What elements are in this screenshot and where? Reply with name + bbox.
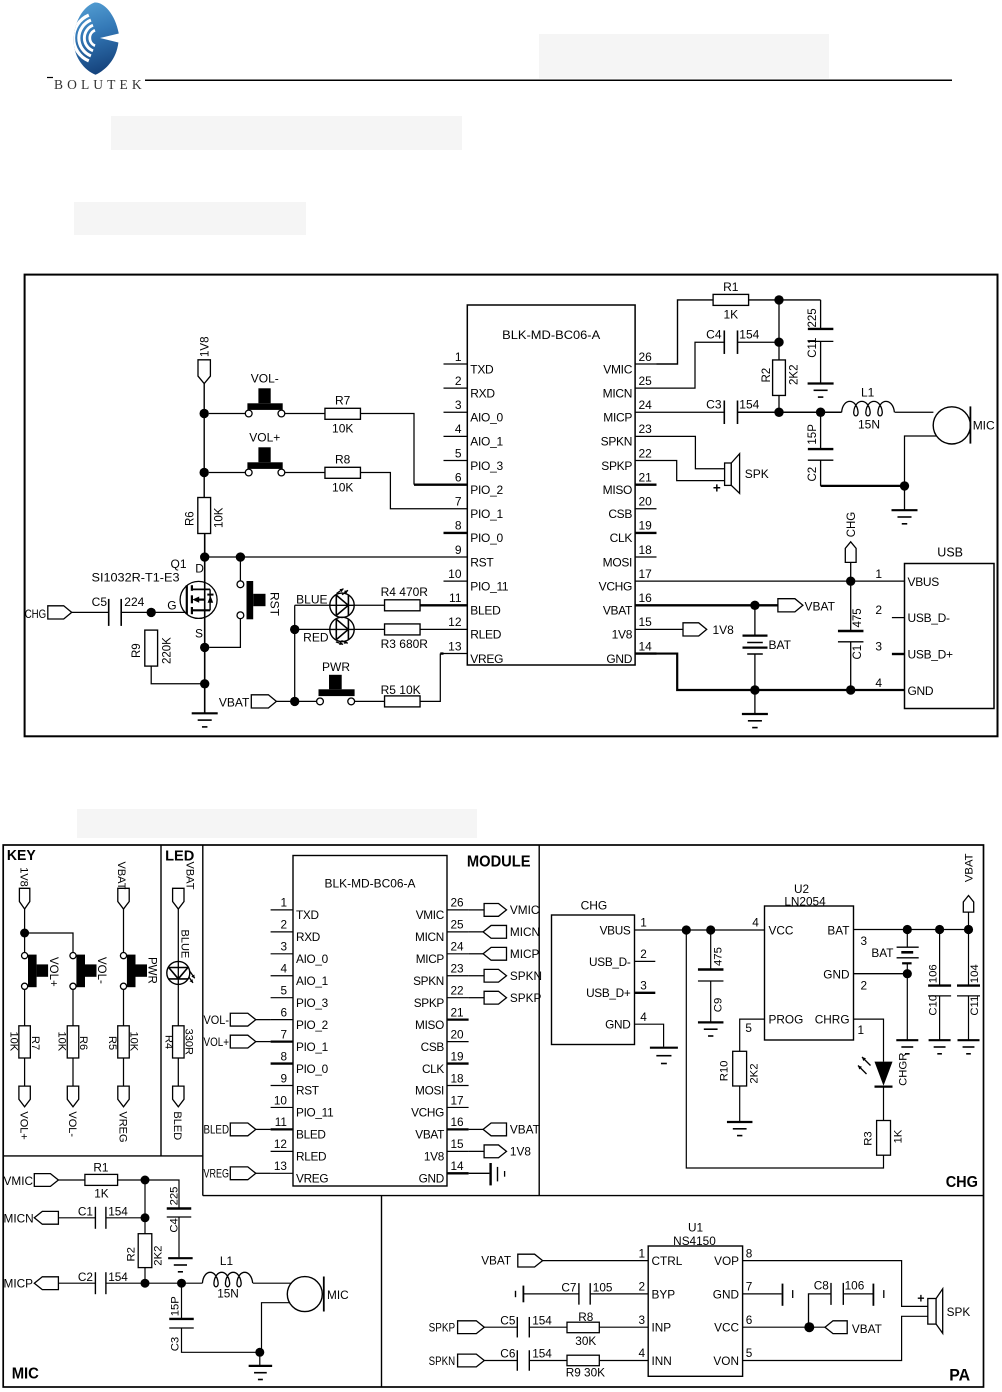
panel divider MODULE/CHG xyxy=(538,845,540,1196)
svg-text:PIO_3: PIO_3 xyxy=(296,996,329,1010)
svg-text:C5: C5 xyxy=(92,595,108,609)
wire junction to VOL- switch xyxy=(209,413,245,415)
wire pin24 MICP to C3 xyxy=(657,411,725,413)
speaker SPK xyxy=(713,454,769,496)
wire RST switch leads xyxy=(209,557,240,647)
svg-text:154: 154 xyxy=(108,1205,128,1219)
switch RST xyxy=(237,581,282,619)
svg-text:RST: RST xyxy=(296,1084,319,1098)
power flag VBAT (LED) xyxy=(173,862,196,910)
resistor R6 10K xyxy=(185,498,226,534)
title placeholder box 3 xyxy=(74,202,306,235)
svg-text:15N: 15N xyxy=(858,417,880,431)
wire RED LED left xyxy=(295,628,330,630)
svg-text:2K2: 2K2 xyxy=(789,365,801,385)
wire pin14 GND rail xyxy=(657,654,905,690)
svg-text:C7: C7 xyxy=(561,1280,576,1294)
port flag 1V8 (MODULE) xyxy=(469,1145,532,1159)
wire R6 to VOL- flag (KEY) xyxy=(72,1058,74,1086)
svg-text:VBAT: VBAT xyxy=(805,599,836,613)
svg-text:D: D xyxy=(195,562,204,576)
capacitor C2 154 (MIC) xyxy=(78,1270,128,1294)
svg-text:VBUS: VBUS xyxy=(600,923,631,937)
svg-text:C5: C5 xyxy=(500,1313,516,1327)
svg-text:1: 1 xyxy=(455,350,462,364)
svg-text:R4: R4 xyxy=(163,1035,175,1049)
svg-text:C2: C2 xyxy=(807,467,819,482)
resistor R7 10K (KEY) xyxy=(7,1026,41,1058)
wire R5 to VREG flag (KEY) xyxy=(123,1058,125,1086)
svg-text:VBAT: VBAT xyxy=(852,1322,882,1336)
svg-text:VMIC: VMIC xyxy=(416,908,445,922)
svg-text:22: 22 xyxy=(639,446,653,460)
module right pin stubs 26-14 xyxy=(635,364,656,654)
svg-text:MOSI: MOSI xyxy=(603,555,632,569)
power flag 1V8 (KEY) xyxy=(18,867,30,909)
svg-text:1: 1 xyxy=(858,1023,865,1037)
output flag VBAT (PWR) xyxy=(219,695,277,710)
node junction VCC/C8 (PA) xyxy=(804,1322,814,1332)
svg-text:R7: R7 xyxy=(335,394,351,408)
resistor R1 1K (MIC) xyxy=(85,1160,118,1200)
wire C5 to gate xyxy=(121,611,185,613)
svg-text:154: 154 xyxy=(108,1270,128,1284)
wire pin16 VBAT row xyxy=(657,604,778,606)
output flag BLED (LED) xyxy=(171,1086,184,1140)
IC module BLK-MD-BC06-A (MODULE) xyxy=(293,856,447,1187)
input flag VBAT (PA) xyxy=(481,1253,648,1267)
svg-text:VOL+: VOL+ xyxy=(249,431,280,445)
module pin numbers 1-13 xyxy=(448,350,462,654)
svg-text:CSB: CSB xyxy=(608,507,632,521)
input flag SPKN (PA) xyxy=(429,1354,518,1368)
resistor R6 10K (KEY) xyxy=(56,1026,89,1058)
svg-text:15: 15 xyxy=(639,615,653,629)
ground cap symbol BYP left xyxy=(516,1286,524,1303)
switch VOL- (KEY) xyxy=(70,953,107,990)
svg-text:20: 20 xyxy=(639,495,653,509)
wire VBUS to U2 VCC xyxy=(635,929,765,931)
svg-text:18: 18 xyxy=(639,543,653,557)
svg-text:CTRL: CTRL xyxy=(652,1254,683,1268)
svg-text:2: 2 xyxy=(280,918,287,932)
svg-text:475: 475 xyxy=(713,947,725,966)
svg-text:19: 19 xyxy=(639,519,653,533)
svg-text:SI1032R-T1-E3: SI1032R-T1-E3 xyxy=(92,571,180,585)
wire 1V8 rail xyxy=(203,384,205,534)
svg-text:SPKP: SPKP xyxy=(601,459,632,473)
svg-text:6: 6 xyxy=(280,1005,287,1019)
ground below battery (CHG) xyxy=(896,1040,918,1054)
svg-text:BYP: BYP xyxy=(652,1287,676,1301)
svg-text:20: 20 xyxy=(451,1027,465,1041)
node junction BAT/C10 xyxy=(935,925,944,934)
svg-text:154: 154 xyxy=(532,1347,552,1361)
node junction VBAT/BAT xyxy=(750,601,759,610)
wire junction to VOL+ switch xyxy=(209,472,245,474)
port flag MICP (MODULE) xyxy=(469,947,540,961)
svg-text:Q1: Q1 xyxy=(171,557,187,571)
svg-text:154: 154 xyxy=(739,327,759,341)
svg-text:2K2: 2K2 xyxy=(749,1063,761,1083)
svg-text:10K: 10K xyxy=(332,481,353,495)
svg-text:VMIC: VMIC xyxy=(510,903,540,917)
wire pin25 MICN to C4 xyxy=(657,342,725,388)
panel divider MIC/PA xyxy=(381,1196,383,1387)
resistor R10 2K2 xyxy=(719,1051,761,1086)
svg-text:RXD: RXD xyxy=(470,386,495,400)
wire R7 to VOL+ flag (KEY) xyxy=(24,1058,26,1086)
svg-text:26: 26 xyxy=(639,350,653,364)
svg-text:VCHG: VCHG xyxy=(599,579,632,593)
wire R2 vertical xyxy=(778,300,780,414)
resistor R3 1K (CHG) xyxy=(863,1087,905,1156)
port flag MICN (MODULE) xyxy=(469,925,540,939)
switch PWR xyxy=(317,660,355,705)
svg-text:106: 106 xyxy=(928,964,940,983)
svg-text:MICN: MICN xyxy=(415,930,444,944)
svg-text:VOL+: VOL+ xyxy=(47,957,59,987)
wire C1 to R2 (MIC) xyxy=(106,1217,145,1219)
ground below C11 (CHG) xyxy=(958,1040,980,1054)
wire R5 to pin13 VREG xyxy=(421,654,444,702)
svg-text:R5: R5 xyxy=(106,1036,118,1050)
svg-text:SPK: SPK xyxy=(947,1305,971,1319)
speaker SPK (PA) xyxy=(917,1289,970,1334)
svg-text:VBAT: VBAT xyxy=(603,604,633,618)
resistor R1 1K xyxy=(713,280,749,321)
node junction BAT/battery xyxy=(903,925,912,934)
port flag SPKN (MODULE) xyxy=(469,969,542,983)
svg-text:USB: USB xyxy=(937,545,963,559)
input flag VREG (MODULE) xyxy=(204,1167,271,1181)
svg-text:11: 11 xyxy=(275,1115,287,1129)
svg-text:10K: 10K xyxy=(332,422,353,436)
panel divider KEY/LED xyxy=(160,845,162,1156)
svg-text:SPKN: SPKN xyxy=(601,435,632,449)
ground below MIC xyxy=(892,486,918,524)
node junction MICP/R2 (MIC) xyxy=(141,1279,150,1288)
wire R3 to VBUS loop xyxy=(686,930,883,1168)
battery BAT (CHG) xyxy=(871,930,918,1040)
svg-text:CHG: CHG xyxy=(846,512,858,538)
svg-text:GND: GND xyxy=(419,1172,444,1186)
svg-text:8: 8 xyxy=(455,519,462,533)
resistor R4 470R xyxy=(354,585,428,611)
svg-text:AIO_1: AIO_1 xyxy=(296,974,328,988)
svg-text:PIO_0: PIO_0 xyxy=(296,1062,329,1076)
output flag VREG (KEY) xyxy=(116,1086,129,1142)
svg-text:GND: GND xyxy=(605,1018,630,1032)
wire R1 to C11 corner xyxy=(749,299,821,301)
svg-text:19: 19 xyxy=(451,1049,464,1063)
input flag BLED (MODULE) xyxy=(204,1123,271,1137)
svg-text:26: 26 xyxy=(451,896,465,910)
svg-text:VOL+: VOL+ xyxy=(17,1111,29,1139)
svg-text:5: 5 xyxy=(746,1346,753,1360)
wire VBAT to LED (LED) xyxy=(178,909,190,961)
wire pin23 SPKN to speaker xyxy=(657,436,725,468)
resistor R4 330R (LED) xyxy=(163,1026,195,1058)
svg-text:SPKP: SPKP xyxy=(510,991,542,1005)
ground cap symbol C8 right (PA) xyxy=(873,1284,883,1306)
svg-text:VCHG: VCHG xyxy=(411,1106,444,1120)
wire R2 vertical (MIC) xyxy=(144,1180,146,1283)
svg-text:LN2054: LN2054 xyxy=(784,894,826,908)
svg-text:R2: R2 xyxy=(126,1247,138,1261)
svg-text:MICN: MICN xyxy=(4,1211,34,1225)
capacitor C10 106 xyxy=(928,930,952,1040)
USB pin stubs xyxy=(892,618,905,654)
title placeholder box 2 xyxy=(111,116,462,150)
svg-text:SPKN: SPKN xyxy=(413,974,444,988)
wire R4 to BLED flag (LED) xyxy=(177,1058,179,1086)
svg-text:C10: C10 xyxy=(928,995,940,1016)
svg-text:MIC: MIC xyxy=(12,1366,39,1383)
svg-text:6: 6 xyxy=(746,1313,753,1327)
svg-text:VBAT: VBAT xyxy=(219,696,250,710)
svg-text:GND: GND xyxy=(908,684,934,698)
svg-text:15P: 15P xyxy=(807,424,819,445)
capacitor C3 154 xyxy=(706,397,759,424)
LED BLUE xyxy=(296,589,354,618)
svg-text:MOSI: MOSI xyxy=(415,1084,444,1098)
capacitor C8 106 (PA) xyxy=(809,1279,874,1328)
module pin numbers 26-14 xyxy=(639,350,653,654)
capacitor C1 475 xyxy=(838,581,864,690)
connector CHG xyxy=(552,899,635,1045)
node junction RST switch top xyxy=(236,552,245,561)
ground below BAT xyxy=(742,690,768,728)
svg-text:PIO_2: PIO_2 xyxy=(470,483,503,497)
ground below C11 xyxy=(808,384,834,398)
node junction BLUE/RED xyxy=(290,625,299,634)
wire LED common to VBAT node xyxy=(294,605,296,701)
svg-text:PIO_1: PIO_1 xyxy=(296,1040,328,1054)
svg-text:CHGR: CHGR xyxy=(897,1053,909,1086)
resistor R5 10K xyxy=(355,683,421,707)
svg-text:7: 7 xyxy=(746,1280,753,1294)
resistor R7 10K xyxy=(325,394,361,436)
wire U2 CHRG to LED CHGR xyxy=(854,1019,884,1062)
svg-text:AIO_0: AIO_0 xyxy=(296,952,329,966)
svg-text:C3: C3 xyxy=(706,397,722,411)
switch PWR (KEY) xyxy=(120,953,157,990)
node junction mic ground (MIC) xyxy=(255,1348,264,1357)
svg-text:106: 106 xyxy=(845,1279,865,1293)
svg-text:17: 17 xyxy=(451,1093,464,1107)
svg-text:CHRG: CHRG xyxy=(815,1012,850,1026)
svg-text:12: 12 xyxy=(448,615,462,629)
svg-text:23: 23 xyxy=(451,962,465,976)
svg-text:R3: R3 xyxy=(863,1131,875,1145)
svg-text:BAT: BAT xyxy=(871,946,893,960)
node junction drain/RST xyxy=(200,552,209,561)
resistor R8 30K (PA) xyxy=(567,1310,648,1348)
node junction MICP/C3 (MIC) xyxy=(177,1279,186,1288)
svg-text:24: 24 xyxy=(451,940,465,954)
svg-text:MICN: MICN xyxy=(603,386,632,400)
svg-text:RST: RST xyxy=(470,555,494,569)
panel divider KEY bottom xyxy=(3,1155,203,1157)
power flag CHG xyxy=(845,512,858,582)
svg-text:225: 225 xyxy=(807,308,819,327)
svg-text:RLED: RLED xyxy=(296,1150,326,1164)
LED CHGR xyxy=(858,1053,909,1087)
svg-text:R1: R1 xyxy=(723,280,739,294)
wire MICP net to L1 (MIC) xyxy=(106,1282,202,1284)
wire CHG GND pin4 to ground xyxy=(635,1024,664,1047)
input flag VOL- (MODULE) xyxy=(204,1013,271,1027)
wire VBAT to PWR switch xyxy=(276,700,316,702)
ground below C10 xyxy=(929,1040,951,1054)
svg-text:VBUS: VBUS xyxy=(908,575,940,589)
IC U1 NS4150 xyxy=(648,1221,742,1377)
wire VOL- switch to R7 xyxy=(285,413,325,415)
svg-text:VMIC: VMIC xyxy=(4,1174,34,1188)
svg-text:VMIC: VMIC xyxy=(603,362,632,376)
header placeholder box 1 xyxy=(539,34,829,79)
svg-text:RED: RED xyxy=(303,631,329,645)
svg-text:CHG: CHG xyxy=(946,1174,978,1191)
node junction mic/ground xyxy=(900,481,909,490)
node junction gate/R9 xyxy=(147,608,156,617)
output flag 1V8 xyxy=(683,623,734,637)
svg-text:12: 12 xyxy=(274,1137,287,1151)
svg-text:330R: 330R xyxy=(182,1029,194,1055)
module pin numbers 26-14 (MODULE) xyxy=(451,896,465,1173)
svg-text:GND: GND xyxy=(606,652,632,666)
svg-text:CHG: CHG xyxy=(25,607,47,621)
svg-text:105: 105 xyxy=(593,1280,613,1294)
module right pin stubs (MODULE) xyxy=(447,910,469,1173)
svg-text:U1: U1 xyxy=(688,1221,703,1235)
svg-text:2K2: 2K2 xyxy=(153,1246,165,1266)
input flag CHG xyxy=(25,606,72,621)
svg-text:1V8: 1V8 xyxy=(713,623,735,637)
wire pin22 SPKP to speaker xyxy=(657,461,725,481)
svg-text:VREG: VREG xyxy=(204,1167,230,1181)
svg-text:8: 8 xyxy=(746,1246,753,1260)
svg-text:MISO: MISO xyxy=(603,483,632,497)
node junction MICN/R2 (MIC) xyxy=(141,1213,150,1222)
input flag VMIC (MIC) xyxy=(4,1174,85,1188)
U2 pin numbers xyxy=(745,916,867,1038)
svg-text:MISO: MISO xyxy=(415,1018,444,1032)
svg-text:SPKN: SPKN xyxy=(510,969,542,983)
svg-text:SPKN: SPKN xyxy=(429,1354,456,1368)
node junction 1V8 (KEY) xyxy=(20,929,29,938)
svg-text:BLUE: BLUE xyxy=(179,930,191,959)
node junction GND/C1 xyxy=(846,685,855,694)
svg-text:VOL-: VOL- xyxy=(204,1013,230,1027)
node junction source/R9 xyxy=(200,679,209,688)
svg-text:1V8: 1V8 xyxy=(424,1150,445,1164)
svg-text:INP: INP xyxy=(652,1321,672,1335)
svg-text:475: 475 xyxy=(852,608,864,627)
svg-text:VBAT: VBAT xyxy=(510,1123,540,1137)
resistor R8 10K xyxy=(325,453,361,495)
switch VOL- xyxy=(245,372,284,417)
svg-text:MICN: MICN xyxy=(510,925,540,939)
svg-text:VOL+: VOL+ xyxy=(204,1035,230,1049)
svg-text:R7: R7 xyxy=(29,1036,41,1050)
capacitor C6 154 (PA) xyxy=(500,1347,567,1371)
svg-text:3: 3 xyxy=(638,1313,645,1327)
svg-text:10K: 10K xyxy=(214,507,226,528)
svg-text:1: 1 xyxy=(280,896,287,910)
svg-text:16: 16 xyxy=(639,591,653,605)
svg-text:AIO_1: AIO_1 xyxy=(470,435,503,449)
wire R1 to C4 corner (MIC) xyxy=(118,1180,179,1209)
node junction 1V8/VOL+ xyxy=(200,468,209,477)
svg-text:25: 25 xyxy=(639,374,653,388)
wire U1 VOP to speaker (PA) xyxy=(743,1261,928,1307)
svg-text:BLK-MD-BC06-A: BLK-MD-BC06-A xyxy=(325,877,416,891)
svg-text:AIO_0: AIO_0 xyxy=(470,411,503,425)
svg-text:VON: VON xyxy=(713,1354,739,1368)
svg-text:R9: R9 xyxy=(131,643,143,658)
microphone MIC (MIC) xyxy=(253,1277,349,1353)
svg-text:USB_D-: USB_D- xyxy=(589,955,631,969)
node junction C4/R2 xyxy=(774,338,783,347)
svg-text:15P: 15P xyxy=(170,1296,182,1316)
svg-text:SPKP: SPKP xyxy=(429,1321,456,1335)
svg-text:VREG: VREG xyxy=(116,1111,128,1142)
svg-text:R6: R6 xyxy=(185,511,197,526)
svg-text:15N: 15N xyxy=(217,1286,239,1300)
header rule xyxy=(145,79,952,81)
svg-text:VOL-: VOL- xyxy=(95,957,107,984)
svg-text:VBAT: VBAT xyxy=(481,1253,511,1267)
svg-text:RLED: RLED xyxy=(470,628,501,642)
svg-text:21: 21 xyxy=(451,1005,464,1019)
microphone MIC xyxy=(895,406,995,486)
svg-text:L1: L1 xyxy=(861,385,875,399)
svg-text:13: 13 xyxy=(274,1159,288,1173)
module left pin stubs (MODULE) xyxy=(271,910,293,1173)
svg-text:USB_D+: USB_D+ xyxy=(908,648,954,662)
svg-text:7: 7 xyxy=(280,1027,287,1041)
wire VBAT to PWR (KEY) xyxy=(123,909,125,952)
node junction VBUS/C9 xyxy=(706,925,715,934)
resistor R2 2K2 xyxy=(761,360,801,396)
wire LED to R4 (LED) xyxy=(177,984,179,1025)
svg-text:PROG: PROG xyxy=(769,1012,804,1026)
svg-text:4: 4 xyxy=(875,676,882,690)
svg-text:22: 22 xyxy=(451,984,464,998)
svg-text:R8: R8 xyxy=(578,1310,594,1324)
U1 pin numbers xyxy=(638,1246,752,1360)
svg-text:10K: 10K xyxy=(128,1032,140,1052)
input flag SPKP (PA) xyxy=(429,1321,518,1335)
LED RED xyxy=(303,617,354,645)
svg-text:9: 9 xyxy=(280,1071,287,1085)
wire C2 to mic ground net xyxy=(821,485,905,487)
svg-text:220K: 220K xyxy=(162,637,174,664)
ground below C9 xyxy=(698,1022,724,1036)
svg-text:R3 680R: R3 680R xyxy=(381,637,429,651)
USB pin numbers xyxy=(875,567,882,690)
svg-text:NS4150: NS4150 xyxy=(673,1234,716,1248)
node junction VBUS/LED loop xyxy=(682,925,691,934)
svg-text:154: 154 xyxy=(739,397,759,411)
output flag VOL- (KEY) xyxy=(66,1086,79,1137)
svg-text:6: 6 xyxy=(455,470,462,484)
svg-text:CLK: CLK xyxy=(610,531,633,545)
wire U2 PROG to R10 xyxy=(740,1019,765,1051)
wire U2 BAT to VBAT xyxy=(854,929,969,931)
